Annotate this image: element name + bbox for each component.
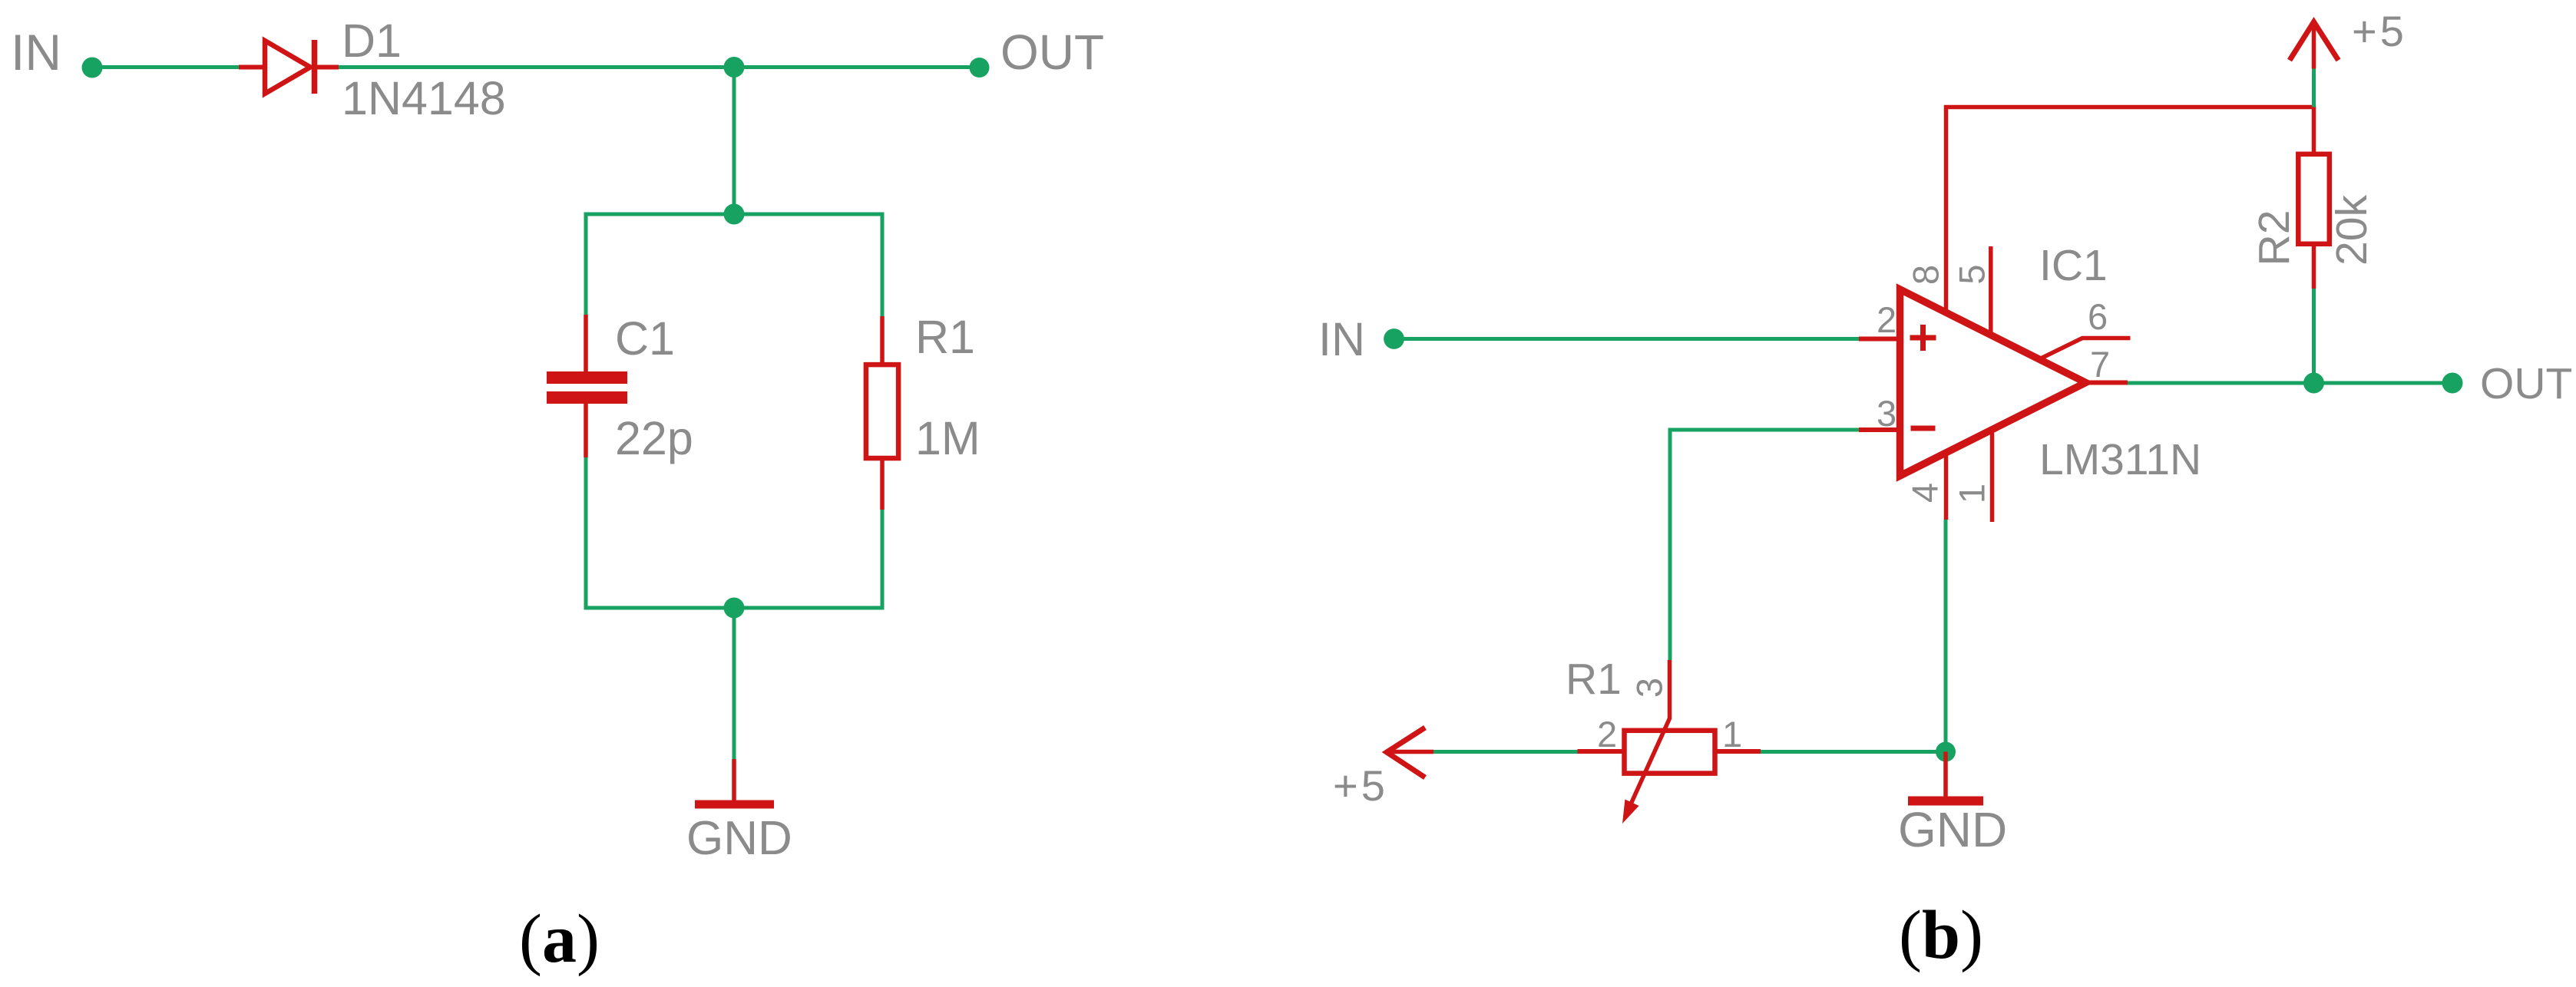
svg-text:D1: D1 [342,15,402,67]
op-amp plus symbol [1910,325,1936,351]
junction top (a) [724,57,745,78]
svg-text:7: 7 [2090,344,2110,385]
diode D1 cathode bar [312,40,318,94]
wire junction down [732,68,736,215]
node IN (a) dot [82,58,103,78]
wire top rail [584,213,885,216]
op-amp pin 6 line [2040,338,2131,359]
svg-text:3: 3 [1629,678,1670,698]
svg-text:20k: 20k [2327,195,2376,266]
svg-text:(a): (a) [519,901,600,977]
wire pin3 vertical [1668,428,1672,661]
svg-text:GND: GND [1898,802,2007,857]
op-amp IC1 triangle [1900,289,2086,476]
resistor R2 body [2298,154,2330,244]
svg-text:OUT: OUT [1000,25,1104,80]
op-amp pin 1 stub [1990,432,1995,522]
wire pot to gnd junction [1761,750,1946,754]
junction out (b) [2303,373,2324,394]
svg-text:R1: R1 [915,311,975,363]
pot R1 wiper arrowhead [1622,800,1639,824]
svg-text:GND: GND [686,812,792,865]
capacitor C1 top lead [584,315,588,373]
op-amp pin 2 stub [1859,337,1900,342]
wire out [2128,381,2452,385]
ground stub (b) [1943,752,1948,799]
capacitor C1 plates [547,371,627,384]
pot R1 pin1 stub [1718,749,1761,754]
svg-text:8: 8 [1906,265,1946,285]
op-amp pin 7 stub [2084,381,2128,385]
resistor R1 top lead [880,316,885,364]
supply +5 top stub [2312,22,2316,69]
capacitor C1 bottom lead [584,402,588,457]
svg-text:6: 6 [2088,296,2108,337]
ground bar (b) [1908,797,1983,806]
ground stub (a) [732,759,736,802]
wire cap branch top [584,214,588,315]
node OUT (a) dot [970,58,990,78]
wire cap branch bottom [584,457,588,608]
op-amp pin 5 line [1989,246,1993,333]
svg-text:R1: R1 [1566,655,1622,704]
supply +5 left stub [1388,750,1433,754]
svg-text:1: 1 [1722,714,1742,754]
svg-text:5: 5 [1952,264,1992,284]
supply +5 left arrow [1387,728,1425,777]
junction gnd (b) [1936,742,1956,762]
op-amp pin 8 line and vcc rail [1946,107,2314,311]
ground bar (a) [695,800,774,809]
wire R1 branch top [881,214,885,316]
pot R1 body [1625,731,1715,774]
wire pin3 horizontal [1668,428,1860,432]
wire junction to OUT [734,65,979,69]
wire IN to diode [92,65,240,69]
wire R1 branch bottom [881,510,885,608]
svg-text:LM311N: LM311N [2039,435,2201,484]
op-amp pin 3 stub [1859,427,1900,432]
wire +5 to pot [1433,750,1578,754]
wire R2 to out junction [2312,289,2316,383]
diode D1 anode lead [239,65,265,70]
resistor R1 body [866,365,898,458]
svg-text:22p: 22p [615,412,693,464]
svg-text:R2: R2 [2250,210,2299,266]
svg-text:2: 2 [1597,714,1617,754]
svg-text:1N4148: 1N4148 [342,72,506,124]
svg-text:IN: IN [11,24,61,81]
wire diode to junction [339,65,734,69]
svg-text:3: 3 [1877,393,1896,434]
svg-text:(b): (b) [1899,897,1983,973]
junction mid (a) [724,204,745,225]
wire +5 to vcc rail [2312,69,2316,107]
svg-text:4: 4 [1905,483,1946,503]
wire junction up to pin4 [1944,520,1948,752]
svg-text:C1: C1 [615,312,675,365]
diode D1 cathode lead [315,65,339,70]
svg-text:1M: 1M [915,412,980,464]
svg-text:IN: IN [1318,313,1365,365]
diode D1 triangle [265,41,310,94]
pot R1 pin2 stub [1578,749,1622,754]
wire bottom rail [584,606,885,610]
svg-text:1: 1 [1952,484,1992,503]
op-amp minus symbol [1911,426,1936,431]
svg-text:2: 2 [1877,299,1896,340]
supply +5 top arrow [2290,22,2339,61]
resistor R2 bottom lead [2312,246,2316,289]
node IN (b) dot [1384,328,1404,349]
resistor R1 bottom lead [880,460,885,510]
svg-text:IC1: IC1 [2039,241,2108,290]
svg-text:+5: +5 [2352,7,2407,55]
op-amp pin 4 stub [1944,456,1949,520]
pot R1 wiper lead [1629,660,1670,807]
wire to ground [732,608,736,759]
svg-text:+5: +5 [1333,761,1388,810]
svg-text:OUT: OUT [2480,359,2572,408]
junction bottom (a) [724,598,745,619]
node OUT (b) dot [2442,373,2463,394]
wire IN to op-amp [1394,337,1859,341]
